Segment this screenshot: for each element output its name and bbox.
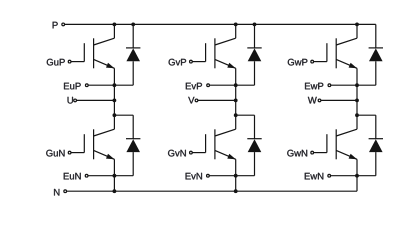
transistor QuP (upper IGBT, phase U): [84, 24, 114, 68]
wire P bus rail: [65, 23, 376, 25]
terminal GwN: [311, 151, 314, 154]
wire EwP emitter sense: [329, 84, 375, 86]
wire EvN emitter sense: [208, 175, 255, 177]
wire QuP emitter to QuN collector: [113, 68, 115, 116]
junction output U / phase leg: [113, 99, 117, 103]
terminal GuN: [68, 151, 71, 154]
terminal GwP: [311, 60, 314, 63]
junction P rail / QwP collector: [355, 23, 359, 27]
junction DwN cathode / phase leg: [355, 113, 359, 117]
transistor QwN (lower IGBT, phase W): [327, 115, 357, 159]
terminal V: [195, 99, 198, 102]
wire gate lead GwP: [312, 61, 327, 63]
label EvP: [186, 83, 202, 90]
diode DvP (upper freewheel diode): [247, 24, 261, 85]
junction EuP / phase leg: [113, 83, 117, 87]
wire gate lead GvN: [191, 152, 206, 154]
diode DwP (upper freewheel diode): [369, 24, 383, 85]
label GuP: [47, 59, 65, 66]
label GvN: [168, 150, 186, 157]
junction P rail / DuP cathode: [131, 23, 135, 27]
wire QvN emitter to N rail: [235, 159, 237, 191]
wire gate lead GuP: [70, 61, 85, 63]
label N: [54, 189, 59, 196]
terminal EvN: [207, 174, 210, 177]
junction DuN cathode / phase leg: [113, 113, 117, 117]
junction N rail / phase U leg: [113, 189, 117, 193]
wire DuN cathode link: [114, 114, 133, 116]
terminal GvN: [190, 151, 193, 154]
terminal GvP: [190, 60, 193, 63]
label GvP: [169, 59, 187, 66]
label EwP: [305, 83, 323, 90]
junction EvN / phase leg: [234, 174, 238, 178]
wire QwN emitter to N rail: [356, 159, 358, 191]
transistor QvN (lower IGBT, phase V): [206, 115, 236, 159]
junction P rail / QuP collector: [113, 23, 117, 27]
diode DwN (lower freewheel diode): [369, 115, 383, 176]
wire QuN emitter to N rail: [113, 159, 115, 191]
wire EvP emitter sense: [208, 84, 254, 86]
label U: [68, 97, 73, 104]
wire gate lead GwN: [312, 152, 327, 154]
label W: [308, 97, 317, 104]
label P: [53, 22, 58, 29]
junction EvP / phase leg: [234, 83, 238, 87]
terminal P: [62, 23, 65, 26]
terminal EwN: [328, 174, 331, 177]
junction N rail / phase V leg: [234, 189, 238, 193]
terminal EwP: [328, 84, 331, 87]
wire gate lead GuN: [70, 152, 85, 154]
label EuN: [64, 173, 81, 180]
transistor QuN (lower IGBT, phase U): [84, 115, 114, 159]
terminal EvP: [207, 84, 210, 87]
label EuP: [64, 83, 81, 90]
junction P rail / DvP cathode: [253, 23, 257, 27]
label GuN: [46, 150, 64, 157]
terminal U: [74, 99, 77, 102]
wire phase output W: [320, 99, 358, 101]
wire QwP emitter to QwN collector: [356, 68, 358, 116]
junction P rail / QvP collector: [234, 23, 238, 27]
terminal GuP: [68, 60, 71, 63]
label V: [188, 97, 194, 104]
diode DvN (lower freewheel diode): [247, 115, 261, 176]
terminal W: [318, 99, 321, 102]
label EwN: [305, 173, 324, 180]
wire EwN emitter sense: [329, 175, 376, 177]
wire phase output U: [75, 99, 114, 101]
wire gate lead GvP: [191, 61, 206, 63]
junction EuN / phase leg: [113, 174, 117, 178]
wire N bus rail: [67, 190, 357, 192]
junction EwP / phase leg: [355, 83, 359, 87]
terminal EuN: [85, 174, 88, 177]
label GwP: [288, 59, 308, 66]
transistor QvP (upper IGBT, phase V): [206, 24, 236, 68]
wire QvP emitter to QvN collector: [235, 68, 237, 116]
junction output W / phase leg: [355, 99, 359, 103]
wire phase output V: [197, 99, 236, 101]
label EvN: [186, 173, 202, 180]
terminal N: [64, 190, 67, 193]
junction EwN / phase leg: [355, 174, 359, 178]
wire DwN cathode link: [357, 114, 376, 116]
junction DvN cathode / phase leg: [234, 113, 238, 117]
junction output V / phase leg: [234, 99, 238, 103]
terminal EuP: [85, 84, 88, 87]
transistor QwP (upper IGBT, phase W): [327, 24, 357, 68]
diode DuN (lower freewheel diode): [126, 115, 140, 176]
wire EuN emitter sense: [87, 175, 134, 177]
wire DvN cathode link: [236, 114, 255, 116]
label GwN: [287, 150, 307, 157]
diode DuP (upper freewheel diode): [126, 24, 140, 85]
wire EuP emitter sense: [87, 84, 133, 86]
